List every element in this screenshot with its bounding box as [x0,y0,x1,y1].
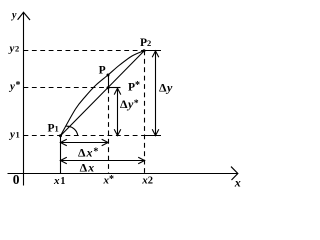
delta x* arrow [61,142,109,144]
x-axis arrowhead [231,167,238,180]
chord P1-P2 [61,51,145,136]
vertical line x2 dashed [144,51,146,174]
solid extension y* to dy* arrow [108,87,121,89]
dashed line y* [24,87,109,89]
svg-text:Δx: Δx [80,160,96,174]
svg-text:Δy: Δy [159,80,173,94]
svg-text:0: 0 [13,172,20,187]
delta y arrow [155,51,157,135]
svg-text:x2: x2 [141,174,153,186]
svg-text:P2: P2 [140,37,151,49]
vertical line x* dashed [108,89,110,174]
delta x arrow [61,160,145,162]
angle arc at P1 [66,126,78,136]
point P [107,74,110,77]
delta y* arrow [117,88,119,135]
svg-text:y: y [11,10,17,21]
vertical line x1 [60,136,62,174]
svg-text:y*: y* [8,80,21,93]
solid extension y1 to dy arrow [145,135,162,137]
dashed line y1 [24,135,145,137]
y-axis [23,13,25,186]
svg-text:x*: x* [103,174,115,187]
vertical line x* solid P to P* [108,75,110,88]
y-axis arrowhead [18,12,30,20]
svg-text:Δy*: Δy* [120,97,139,111]
svg-text:P1: P1 [48,123,59,135]
svg-text:x1: x1 [53,175,66,187]
point P1 [59,134,62,137]
dashed line y2 [24,50,145,52]
point P* [107,86,110,89]
solid extension y2 to dy arrow [145,50,162,52]
curve P1-P-P2 [61,51,145,136]
svg-text:y2: y2 [8,43,20,55]
point P2 [143,49,146,52]
svg-text:y1: y1 [8,129,20,141]
x-axis [8,173,238,175]
svg-text:P: P [99,64,106,76]
svg-text:x: x [234,175,241,189]
